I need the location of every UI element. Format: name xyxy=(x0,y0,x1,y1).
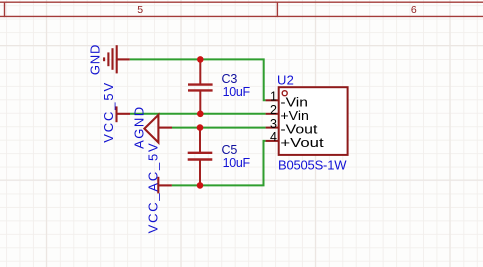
svg-text:B0505S-1W: B0505S-1W xyxy=(278,158,347,173)
pin 1 marker circle xyxy=(282,91,287,96)
wire GND to pin1 xyxy=(130,59,266,100)
svg-text:U2: U2 xyxy=(277,73,294,88)
junction dot xyxy=(197,111,204,118)
capacitor C3 xyxy=(188,59,213,113)
svg-text:1: 1 xyxy=(270,90,277,104)
wire AGND to pin3 xyxy=(172,127,266,129)
svg-text:VCC_AC_5V: VCC_AC_5V xyxy=(146,143,161,233)
svg-text:+Vout: +Vout xyxy=(280,135,324,150)
wire VCC_5V to pin2 xyxy=(130,113,266,115)
power flag VCC_5V xyxy=(117,106,131,122)
svg-text:10uF: 10uF xyxy=(223,156,251,170)
pin 1 -Vin xyxy=(266,90,308,110)
pin 2 +Vin xyxy=(266,103,309,123)
ground AGND triangle symbol xyxy=(144,115,172,143)
svg-text:10uF: 10uF xyxy=(223,85,251,99)
svg-text:3: 3 xyxy=(270,117,277,131)
wire VCC_AC_5V to pin4 xyxy=(172,141,266,186)
svg-text:C5: C5 xyxy=(222,143,238,157)
svg-text:6: 6 xyxy=(411,4,417,16)
pin 4 +Vout xyxy=(266,130,324,150)
junction dot xyxy=(197,124,204,131)
svg-text:C3: C3 xyxy=(222,72,238,86)
svg-text:2: 2 xyxy=(270,103,277,117)
svg-text:GND: GND xyxy=(87,45,102,76)
svg-text:5: 5 xyxy=(137,4,143,16)
svg-text:+Vin: +Vin xyxy=(280,108,309,123)
ground GND power symbol xyxy=(104,45,130,73)
capacitor C5 xyxy=(188,128,213,186)
ic U2 body xyxy=(279,87,348,155)
pin 3 -Vout xyxy=(266,117,318,137)
power flag VCC_AC_5V xyxy=(158,177,172,194)
junction dot xyxy=(197,182,204,189)
svg-text:AGND: AGND xyxy=(131,107,146,149)
junction dot xyxy=(197,56,204,63)
svg-text:4: 4 xyxy=(270,130,277,144)
